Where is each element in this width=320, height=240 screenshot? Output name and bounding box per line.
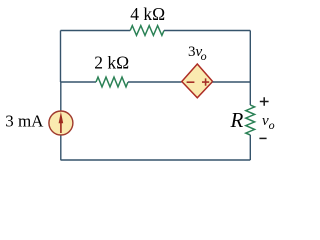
svg-text:vo: vo <box>262 113 275 132</box>
resistor R zigzag <box>246 105 255 135</box>
wire 2k resistor to dependent source <box>128 81 182 83</box>
wire current source to bottom-left corner <box>60 136 62 161</box>
resistor 2 kOhm zigzag <box>96 77 128 87</box>
label plus of vo <box>260 97 269 105</box>
wire resistor R to bottom-right corner <box>249 135 251 160</box>
wire left vertical upper (top corner to middle junction) <box>60 31 62 83</box>
wire dependent source to right vertical <box>213 81 251 83</box>
svg-text:3vo: 3vo <box>188 44 207 63</box>
svg-text:4 kΩ: 4 kΩ <box>130 4 165 24</box>
minus sign inside dependent source <box>187 81 195 83</box>
wire right vertical upper (top corner to middle junction) <box>249 31 251 83</box>
svg-text:3 mA: 3 mA <box>5 111 44 130</box>
svg-text:2 kΩ: 2 kΩ <box>94 53 129 73</box>
wire middle left segment <box>61 81 97 83</box>
label minus of vo <box>259 137 266 139</box>
wire left vertical middle junction to current source <box>60 82 62 111</box>
dependent source 3vo diamond <box>182 64 213 98</box>
current source 3 mA circle <box>49 111 73 135</box>
plus sign inside dependent source <box>202 78 209 85</box>
current source arrow <box>60 123 62 133</box>
wire bottom <box>61 159 251 161</box>
svg-text:R: R <box>230 108 244 132</box>
resistor 4 kOhm zigzag <box>130 26 164 36</box>
wire right vertical middle junction to resistor R <box>249 82 251 105</box>
wire top-left to 4k resistor <box>61 30 131 32</box>
wire 4k resistor to top-right corner <box>164 30 250 32</box>
